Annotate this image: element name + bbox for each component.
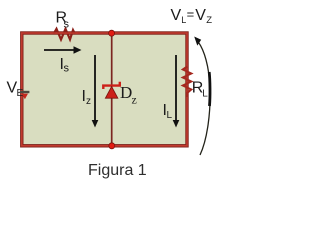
arrow Is <box>44 49 75 51</box>
curved arrow head <box>194 37 201 46</box>
wire middle branch <box>111 34 113 146</box>
svg-text:L: L <box>181 15 186 25</box>
svg-text:z: z <box>132 93 137 107</box>
svg-text:E: E <box>17 88 24 99</box>
svg-text:L: L <box>202 89 208 100</box>
svg-text:V: V <box>195 7 206 24</box>
svg-text:s: s <box>64 63 70 75</box>
resistor R1 zigzag (Rs) on top wire <box>54 29 76 40</box>
svg-text:Figura 1: Figura 1 <box>88 162 147 179</box>
arrow IL <box>175 55 177 121</box>
circuit box fill <box>22 33 187 146</box>
zener diode DZ triangle <box>105 87 117 99</box>
svg-text:s: s <box>64 19 70 31</box>
node bottom junction <box>109 143 115 149</box>
battery source mark at VE <box>20 91 30 93</box>
svg-text:D: D <box>120 83 132 102</box>
curved arrow thick mid segment <box>208 72 212 106</box>
zener diode DZ cathode bar <box>103 82 120 89</box>
svg-text:=: = <box>187 7 195 22</box>
svg-text:Z: Z <box>206 15 212 26</box>
shadow under circuit box <box>25 147 190 149</box>
svg-text:z: z <box>86 96 91 107</box>
curved arrow arc <box>199 43 211 156</box>
wire loop bright core <box>22 33 187 146</box>
svg-text:L: L <box>167 110 173 121</box>
node top junction <box>109 30 115 36</box>
resistor R2 zigzag (RL) on right wire <box>183 67 192 98</box>
wire loop outer (dark edge) <box>22 33 187 146</box>
arrow Iz <box>94 55 96 121</box>
svg-text:V: V <box>171 7 182 24</box>
wire bright core through Rs <box>50 32 78 34</box>
